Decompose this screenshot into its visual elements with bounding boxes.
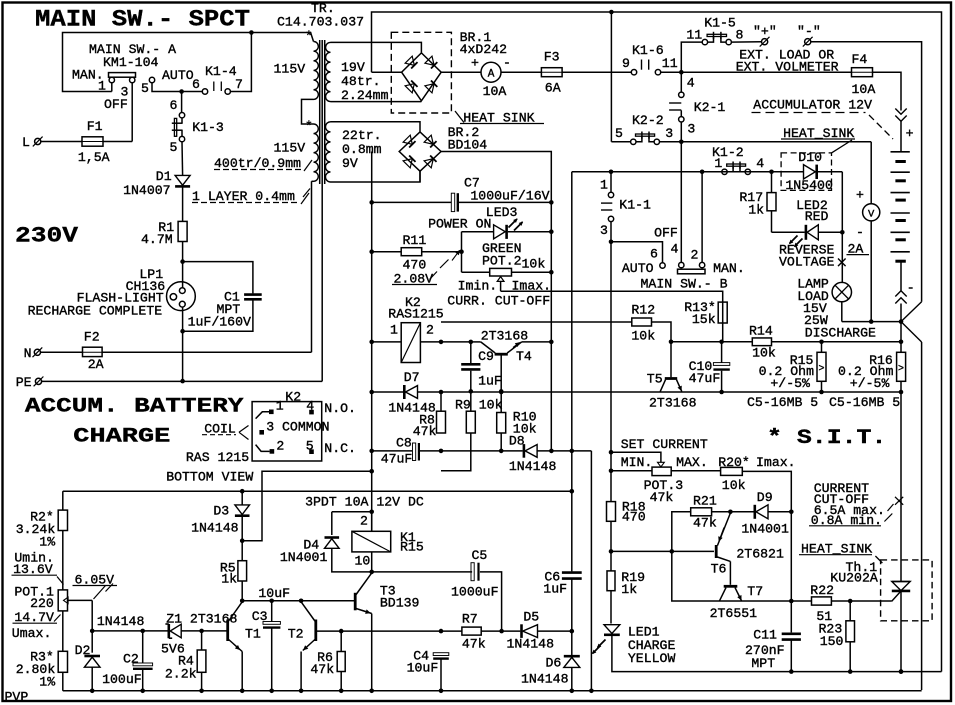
svg-text:VOLTAGE: VOLTAGE	[779, 255, 834, 270]
svg-text:CHARGE: CHARGE	[73, 425, 170, 448]
svg-text:F4: F4	[852, 52, 868, 67]
svg-text:5: 5	[615, 126, 623, 141]
svg-text:7: 7	[235, 77, 243, 92]
svg-text:470: 470	[403, 258, 427, 273]
svg-text:10: 10	[355, 553, 371, 568]
svg-text:1N4148: 1N4148	[521, 671, 569, 686]
svg-text:L: L	[22, 135, 30, 150]
svg-text:47k: 47k	[693, 515, 717, 530]
svg-text:RAS1215: RAS1215	[388, 306, 443, 321]
svg-text:MAN.: MAN.	[713, 261, 745, 276]
svg-text:C9: C9	[478, 349, 494, 364]
svg-text:MPT: MPT	[751, 656, 775, 671]
svg-text:4: 4	[306, 399, 314, 414]
svg-text:9: 9	[622, 56, 630, 71]
svg-text:Imin.: Imin.	[458, 278, 498, 293]
svg-text:R15: R15	[400, 540, 424, 555]
svg-text:>: >	[898, 364, 904, 375]
svg-text:*: *	[305, 119, 313, 134]
svg-text:47k: 47k	[650, 490, 674, 505]
svg-text:K1-5: K1-5	[704, 15, 736, 30]
svg-text:5: 5	[306, 438, 314, 453]
svg-text:C5-16MB 5: C5-16MB 5	[747, 395, 818, 410]
svg-text:2.24mm: 2.24mm	[341, 88, 389, 103]
svg-text:C2: C2	[123, 651, 139, 666]
svg-text:10uF: 10uF	[407, 661, 439, 676]
svg-text:1uF: 1uF	[543, 581, 567, 596]
svg-text:1k: 1k	[221, 572, 237, 587]
svg-text:C11: C11	[753, 627, 777, 642]
svg-text:CURR. CUT-OFF: CURR. CUT-OFF	[447, 294, 550, 309]
svg-text:1: 1	[714, 156, 722, 171]
svg-text:T5: T5	[647, 372, 663, 387]
svg-text:11: 11	[662, 56, 678, 71]
svg-text:KU202A: KU202A	[830, 570, 878, 585]
svg-text:10k: 10k	[722, 478, 746, 493]
svg-text:2T3168: 2T3168	[649, 396, 697, 411]
svg-text:3 COMMON: 3 COMMON	[266, 420, 329, 435]
svg-text:SET CURRENT: SET CURRENT	[621, 437, 708, 452]
svg-text:1: 1	[276, 399, 284, 414]
svg-text:OFF: OFF	[654, 226, 678, 241]
svg-text:"+": "+"	[753, 24, 777, 39]
svg-text:10k: 10k	[522, 257, 546, 272]
svg-text:19V: 19V	[341, 60, 365, 75]
svg-text:8: 8	[736, 28, 744, 43]
svg-text:BD104: BD104	[448, 138, 488, 153]
svg-text:KM1-104: KM1-104	[103, 55, 158, 70]
svg-text:11: 11	[686, 28, 702, 43]
svg-text:R14: R14	[749, 324, 773, 339]
svg-text:N: N	[24, 346, 32, 361]
svg-text:>: >	[818, 364, 824, 375]
svg-text:4.7M: 4.7M	[141, 232, 173, 247]
svg-text:220: 220	[30, 596, 54, 611]
svg-text:1N4148: 1N4148	[97, 614, 145, 629]
svg-text:ACCUMULATOR 12V: ACCUMULATOR 12V	[753, 98, 872, 113]
svg-text:-: -	[907, 281, 915, 296]
svg-text:YELLOW: YELLOW	[628, 651, 676, 666]
svg-text:T6: T6	[711, 562, 727, 577]
svg-text:PE: PE	[16, 375, 32, 390]
svg-text:+: +	[856, 188, 864, 203]
svg-text:3: 3	[665, 126, 673, 141]
svg-text:D6: D6	[546, 656, 562, 671]
svg-text:C5-16MB 5: C5-16MB 5	[829, 395, 900, 410]
svg-text:10k: 10k	[752, 346, 776, 361]
svg-text:T7: T7	[747, 584, 763, 599]
svg-text:DISCHARGE: DISCHARGE	[805, 326, 876, 341]
svg-text:6A: 6A	[545, 81, 561, 96]
svg-text:T4: T4	[516, 349, 532, 364]
svg-text:230V: 230V	[15, 224, 79, 249]
svg-text:+: +	[906, 126, 914, 141]
svg-text:4: 4	[687, 76, 695, 91]
svg-text:* S.I.T.: * S.I.T.	[767, 427, 886, 450]
svg-text:115V: 115V	[274, 141, 306, 156]
svg-text:T1: T1	[245, 626, 261, 641]
svg-text:1k: 1k	[621, 582, 637, 597]
svg-text:6: 6	[650, 247, 658, 262]
svg-text:MAIN SW.- SPCT: MAIN SW.- SPCT	[35, 7, 250, 33]
svg-text:C14.703.037: C14.703.037	[277, 15, 364, 30]
svg-text:470: 470	[622, 509, 646, 524]
svg-text:1: 1	[98, 79, 106, 94]
svg-text:2: 2	[691, 248, 699, 263]
svg-text:-: -	[503, 56, 511, 71]
svg-text:4: 4	[671, 242, 679, 257]
svg-text:3: 3	[600, 223, 608, 238]
svg-text:22tr.: 22tr.	[342, 128, 382, 143]
svg-text:1N4148: 1N4148	[191, 520, 239, 535]
svg-text:4xD242: 4xD242	[460, 42, 507, 57]
svg-text:400tr/0.9mm: 400tr/0.9mm	[214, 156, 301, 171]
svg-text:2T6551: 2T6551	[710, 606, 758, 621]
svg-text:3PDT 10A 12V DC: 3PDT 10A 12V DC	[305, 495, 424, 510]
svg-text:2: 2	[360, 514, 368, 529]
svg-text:R11: R11	[403, 233, 427, 248]
svg-text:"-": "-"	[797, 24, 821, 39]
svg-text:AUTO: AUTO	[622, 261, 654, 276]
svg-text:D2: D2	[75, 643, 91, 658]
svg-text:D9: D9	[757, 490, 773, 505]
svg-text:150: 150	[820, 634, 844, 649]
svg-text:C3: C3	[252, 609, 268, 624]
svg-text:6: 6	[170, 98, 178, 113]
svg-text:BOTTOM VIEW: BOTTOM VIEW	[166, 470, 253, 485]
svg-text:BD139: BD139	[380, 596, 420, 611]
svg-text:ACCUM. BATTERY: ACCUM. BATTERY	[25, 395, 244, 418]
svg-text:1uF: 1uF	[478, 374, 502, 389]
svg-text:K1-6: K1-6	[632, 43, 664, 58]
svg-text:1uF/160V: 1uF/160V	[188, 315, 251, 330]
svg-text:K1-3: K1-3	[192, 120, 224, 135]
svg-text:POT.2: POT.2	[482, 254, 522, 269]
svg-text:4: 4	[756, 156, 764, 171]
svg-text:2T6821: 2T6821	[736, 547, 784, 562]
svg-text:1%: 1%	[39, 675, 55, 690]
svg-text:5: 5	[170, 140, 178, 155]
svg-text:F3: F3	[544, 50, 560, 65]
svg-text:1000uF/16V: 1000uF/16V	[470, 189, 549, 204]
svg-text:47uF: 47uF	[689, 371, 721, 386]
svg-text:D3: D3	[213, 503, 229, 518]
svg-text:47k: 47k	[462, 636, 486, 651]
svg-text:K2-1: K2-1	[694, 100, 726, 115]
svg-text:6: 6	[192, 77, 200, 92]
svg-text:OFF: OFF	[104, 97, 128, 112]
svg-text:47k: 47k	[310, 662, 334, 677]
svg-text:D7: D7	[404, 370, 420, 385]
svg-text:1N4007: 1N4007	[123, 183, 170, 198]
svg-text:0.8mm: 0.8mm	[342, 142, 382, 157]
svg-text:*: *	[305, 29, 313, 44]
svg-text:R22: R22	[810, 583, 834, 598]
svg-text:C8: C8	[396, 435, 412, 450]
svg-text:K1-4: K1-4	[205, 64, 237, 79]
svg-text:47k: 47k	[413, 424, 437, 439]
svg-text:2: 2	[276, 438, 284, 453]
svg-text:AUTO: AUTO	[162, 68, 194, 83]
svg-text:A: A	[488, 69, 495, 81]
svg-text:MAIN SW.- B: MAIN SW.- B	[641, 277, 728, 292]
svg-text:D10: D10	[798, 150, 822, 165]
svg-text:48tr.: 48tr.	[341, 74, 381, 89]
svg-text:R9 10k: R9 10k	[455, 398, 503, 413]
svg-text:N.O.: N.O.	[324, 401, 356, 416]
svg-text:1N5400: 1N5400	[785, 178, 833, 193]
svg-text:47uF: 47uF	[381, 452, 413, 467]
svg-text:10uF: 10uF	[258, 586, 290, 601]
svg-text:F1: F1	[87, 119, 103, 134]
svg-text:2: 2	[426, 323, 434, 338]
svg-text:V: V	[868, 209, 875, 221]
svg-text:10A: 10A	[852, 82, 876, 97]
svg-text:1N4001: 1N4001	[280, 550, 328, 565]
svg-text:3: 3	[687, 122, 695, 137]
svg-text:N.C.: N.C.	[324, 441, 356, 456]
svg-text:1: 1	[600, 178, 608, 193]
svg-text:D5: D5	[523, 609, 539, 624]
svg-text:10A: 10A	[483, 84, 507, 99]
svg-text:R7: R7	[462, 611, 478, 626]
svg-text:2A: 2A	[88, 357, 104, 372]
svg-text:100uF: 100uF	[102, 672, 142, 687]
svg-text:EXT. VOLMETER: EXT. VOLMETER	[736, 60, 839, 75]
svg-text:5: 5	[141, 81, 149, 96]
svg-text:D1: D1	[156, 169, 172, 184]
svg-text:9V: 9V	[342, 156, 358, 171]
svg-text:MAX.: MAX.	[676, 455, 708, 470]
svg-text:R12: R12	[631, 303, 655, 318]
svg-text:K2-2: K2-2	[632, 113, 664, 128]
svg-text:RECHARGE COMPLETE: RECHARGE COMPLETE	[28, 304, 163, 319]
svg-text:Z1 2T3168: Z1 2T3168	[166, 612, 237, 627]
svg-text:2.2k: 2.2k	[165, 667, 197, 682]
svg-text:R21: R21	[693, 494, 717, 509]
svg-text:1 LAYER 0.4mm: 1 LAYER 0.4mm	[192, 189, 295, 204]
svg-text:RAS 1215: RAS 1215	[186, 450, 249, 465]
svg-text:+: +	[471, 56, 479, 71]
svg-text:1N4148: 1N4148	[509, 459, 557, 474]
svg-text:1,5A: 1,5A	[78, 150, 110, 165]
svg-text:-: -	[856, 225, 864, 240]
svg-text:T2: T2	[288, 626, 304, 641]
svg-text:1N4001: 1N4001	[741, 522, 789, 537]
svg-text:MIN.: MIN.	[621, 455, 653, 470]
svg-text:1000uF: 1000uF	[451, 585, 498, 600]
svg-text:R20*: R20*	[718, 455, 750, 470]
svg-text:115V: 115V	[274, 62, 306, 77]
svg-text:15k: 15k	[692, 312, 716, 327]
svg-text:1: 1	[390, 323, 398, 338]
svg-text:K1-1: K1-1	[619, 198, 651, 213]
svg-text:2T3168: 2T3168	[481, 329, 529, 344]
svg-text:1k: 1k	[748, 203, 764, 218]
svg-text:RED: RED	[805, 209, 829, 224]
svg-text:Imax.: Imax.	[756, 455, 796, 470]
svg-text:+/-5%: +/-5%	[770, 376, 810, 391]
svg-text:+/-5%: +/-5%	[850, 376, 890, 391]
svg-text:D8: D8	[509, 434, 525, 449]
svg-text:10k: 10k	[631, 329, 655, 344]
svg-text:C5: C5	[472, 548, 488, 563]
svg-text:POWER ON: POWER ON	[428, 217, 491, 232]
svg-text:F2: F2	[84, 330, 100, 345]
svg-text:K2: K2	[285, 389, 301, 404]
svg-text:1%: 1%	[39, 535, 55, 550]
svg-text:1N4148: 1N4148	[507, 636, 555, 651]
svg-text:PVP: PVP	[5, 690, 29, 705]
svg-text:Umax.: Umax.	[12, 626, 52, 641]
